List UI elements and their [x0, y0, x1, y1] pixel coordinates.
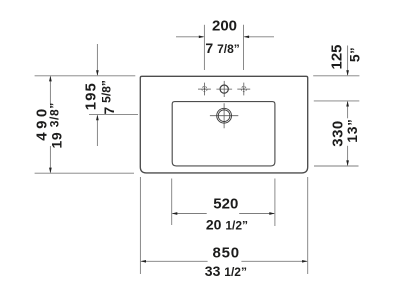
svg-text:5”: 5” [347, 47, 363, 62]
svg-text:125: 125 [328, 44, 345, 69]
svg-text:33 1/2”: 33 1/2” [205, 263, 247, 279]
svg-text:200: 200 [212, 18, 237, 35]
svg-text:195: 195 [82, 82, 99, 110]
svg-text:20 1/2”: 20 1/2” [206, 216, 248, 232]
svg-text:520: 520 [213, 195, 238, 212]
svg-text:850: 850 [212, 245, 239, 262]
svg-text:13”: 13” [344, 119, 360, 143]
svg-text:7 7/8”: 7 7/8” [205, 40, 239, 56]
